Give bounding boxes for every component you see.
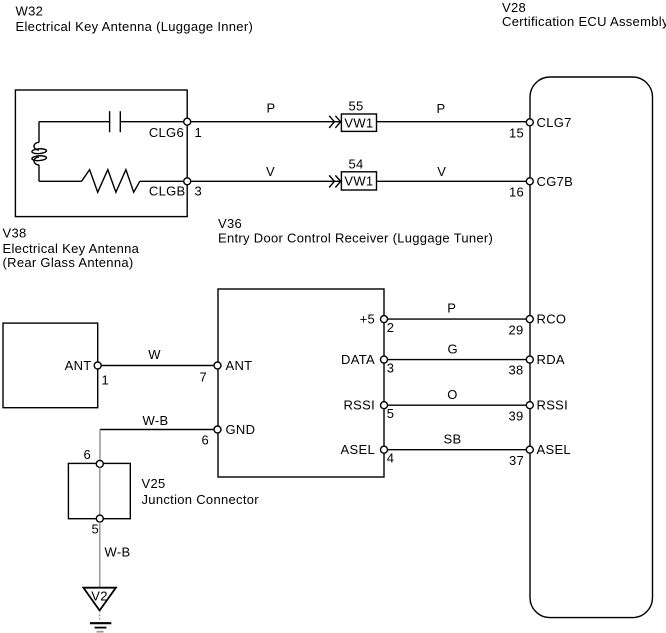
svg-text:1: 1 [195, 125, 203, 140]
wire left vertical branch [38, 122, 40, 182]
svg-text:+5: +5 [360, 312, 375, 327]
svg-text:W: W [148, 347, 161, 362]
pin 37 ASEL of V28 [509, 442, 571, 468]
wire P row from pin1 to splice [191, 101, 342, 122]
svg-text:V25: V25 [142, 476, 166, 491]
pin 6 of V25 [83, 447, 103, 467]
label V38 [3, 226, 140, 270]
wire V row from pin3 to splice [191, 164, 342, 181]
svg-text:7: 7 [199, 370, 207, 385]
in-line connector 54 VW1 [341, 156, 376, 190]
svg-text:5: 5 [387, 406, 395, 421]
in-line connector arrows row2 [329, 175, 340, 187]
svg-text:4: 4 [387, 451, 395, 466]
svg-text:Electrical Key Antenna: Electrical Key Antenna [3, 241, 140, 256]
svg-text:V: V [437, 164, 446, 179]
ground earth symbol [90, 623, 111, 632]
svg-text:W-B: W-B [143, 413, 169, 428]
label V36 [218, 216, 493, 246]
label V28 [502, 0, 666, 29]
svg-text:Junction Connector: Junction Connector [142, 492, 260, 507]
connector box V38 (rear glass antenna) [3, 323, 98, 408]
in-line connector 55 VW1 [341, 98, 376, 131]
connector box W32 (luggage inner antenna) [15, 90, 187, 217]
svg-text:CLGB: CLGB [149, 184, 186, 199]
svg-text:W-B: W-B [105, 545, 131, 560]
svg-text:O: O [447, 387, 457, 402]
svg-text:39: 39 [508, 408, 523, 423]
pin 3 DATA of V36 [341, 352, 394, 376]
pin 1 ANT of V38 [65, 358, 109, 388]
svg-text:CLG7: CLG7 [537, 115, 572, 130]
svg-text:RCO: RCO [537, 312, 567, 327]
pin 1 CLG6 of W32 [149, 118, 202, 140]
wire W-B to ground (gray) [100, 522, 131, 587]
label W32 [16, 4, 254, 35]
wire P row from VW1 to ECU pin 15 [377, 101, 530, 122]
pin 4 ASEL of V36 [341, 442, 395, 466]
svg-text:V28: V28 [502, 0, 526, 15]
svg-text:3: 3 [195, 184, 203, 199]
pin 5 RSSI of V36 [343, 398, 394, 422]
svg-text:P: P [447, 300, 456, 315]
svg-text:(Rear Glass Antenna): (Rear Glass Antenna) [3, 255, 134, 270]
svg-text:ANT: ANT [65, 358, 92, 373]
svg-text:V2: V2 [91, 589, 108, 604]
svg-text:RSSI: RSSI [343, 398, 375, 413]
svg-text:Certification ECU Assembly: Certification ECU Assembly [502, 14, 666, 29]
pin 6 GND of V36 [201, 422, 255, 448]
in-line connector arrows row1 [329, 116, 340, 128]
svg-text:V: V [266, 164, 275, 179]
wire V row from VW1 to ECU pin 16 [377, 164, 530, 181]
svg-text:VW1: VW1 [344, 115, 373, 130]
pin 38 RDA of V28 [508, 352, 564, 378]
svg-text:G: G [447, 342, 457, 357]
ground connector V2 triangle [83, 588, 116, 611]
svg-text:Entry Door Control Receiver (L: Entry Door Control Receiver (Luggage Tun… [218, 231, 493, 246]
label V25 [142, 476, 260, 507]
svg-text:15: 15 [509, 126, 524, 141]
svg-text:37: 37 [509, 453, 524, 468]
wire resistor bottom branch [39, 180, 187, 182]
junction connector V25 body [68, 463, 130, 518]
wire W-B horizontal [100, 413, 214, 430]
ECU V28 body [530, 77, 653, 618]
wire O to RSSI [388, 387, 530, 405]
inductor L1 coil [32, 142, 47, 165]
wire W-B vertical drop (gray) [99, 430, 101, 461]
pin 15 CLG7 of V28 [509, 115, 572, 141]
svg-text:VW1: VW1 [344, 174, 373, 189]
svg-text:CG7B: CG7B [537, 174, 574, 189]
svg-text:CLG6: CLG6 [149, 125, 184, 140]
svg-text:DATA: DATA [341, 352, 375, 367]
svg-text:ANT: ANT [226, 358, 253, 373]
wire dotted apex to earth (gray) [99, 611, 101, 622]
wire V25 internal (gray) [99, 467, 101, 515]
svg-text:38: 38 [508, 363, 523, 378]
svg-text:2: 2 [387, 320, 395, 335]
svg-text:V36: V36 [218, 216, 242, 231]
svg-text:Electrical Key Antenna (Luggag: Electrical Key Antenna (Luggage Inner) [16, 19, 254, 34]
pin 39 RSSI of V28 [508, 398, 568, 424]
capacitor C1 plates [110, 111, 121, 132]
svg-text:GND: GND [226, 422, 256, 437]
svg-text:54: 54 [348, 156, 363, 171]
wire G to RDA [388, 342, 530, 360]
svg-text:3: 3 [387, 361, 395, 376]
wire P to RCO [388, 300, 530, 319]
svg-text:ASEL: ASEL [341, 442, 375, 457]
wire capacitor top branch [39, 121, 187, 123]
pin 7 ANT of V36 [199, 358, 252, 385]
svg-text:6: 6 [83, 447, 91, 462]
svg-text:16: 16 [509, 184, 524, 199]
svg-text:5: 5 [91, 522, 99, 537]
svg-text:W32: W32 [16, 4, 44, 19]
resistor R1 zigzag [82, 170, 140, 193]
svg-text:RSSI: RSSI [537, 398, 569, 413]
pin 16 CG7B of V28 [509, 174, 573, 200]
svg-text:RDA: RDA [537, 352, 565, 367]
svg-text:55: 55 [348, 98, 363, 113]
svg-text:ASEL: ASEL [537, 442, 571, 457]
pin 2 +5 of V36 [360, 312, 395, 336]
receiver box V36 [218, 289, 384, 477]
wire SB to ASEL [388, 432, 530, 450]
pin 3 CLGB of W32 [149, 178, 202, 199]
wire W [101, 347, 217, 366]
svg-text:P: P [437, 101, 446, 116]
svg-text:V38: V38 [3, 226, 27, 241]
svg-text:29: 29 [508, 322, 523, 337]
svg-text:1: 1 [102, 373, 110, 388]
pin 29 RCO of V28 [508, 312, 566, 338]
svg-text:6: 6 [201, 433, 209, 448]
svg-text:SB: SB [444, 432, 462, 447]
svg-text:P: P [267, 101, 276, 116]
pin 5 of V25 [91, 515, 103, 536]
